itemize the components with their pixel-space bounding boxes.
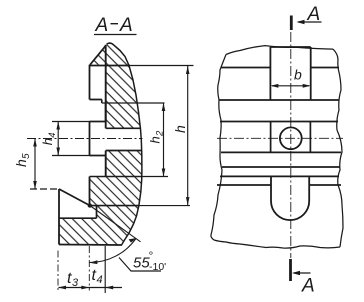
tooth1 column left edge bbox=[105, 45, 107, 122]
rect1 bottom edge bbox=[90, 99, 102, 101]
hatch region upper tooth and column bbox=[90, 43, 140, 128]
top surface extension to h bbox=[130, 65, 194, 67]
svg-text:3: 3 bbox=[72, 277, 79, 289]
svg-text:h: h bbox=[172, 125, 188, 133]
hole circle bbox=[280, 127, 302, 149]
svg-text:A: A bbox=[307, 4, 321, 25]
section mark top bbox=[290, 16, 293, 31]
extension line x=58.5 bbox=[57, 251, 59, 291]
h5 bottom extension bbox=[30, 188, 59, 190]
dimension h bbox=[187, 66, 189, 205]
rect1 left edge bbox=[89, 65, 91, 100]
tooth3 top extension for h2 bbox=[142, 176, 168, 178]
section mark bottom bbox=[289, 259, 292, 281]
svg-text:4: 4 bbox=[97, 274, 103, 286]
horizontal centerline bbox=[217, 137, 343, 139]
tooth3 top line y=176.5 bbox=[90, 176, 142, 178]
vertical centerline bbox=[290, 32, 292, 258]
line y=100 bbox=[219, 99, 339, 101]
extension line x=105 bbox=[104, 246, 106, 293]
vertex dot bbox=[88, 203, 92, 207]
line y=185 right of U slot bbox=[309, 184, 341, 186]
valley floor bbox=[59, 217, 97, 219]
step line y=103 across column bbox=[102, 102, 165, 104]
notch1 right wall bbox=[105, 103, 107, 122]
line y=185 left of U slot bbox=[217, 184, 271, 186]
shaft surface line y=67.5 left of slot bbox=[221, 67, 270, 69]
outer freehand boundary bbox=[211, 46, 343, 248]
line y=176.4 bbox=[220, 175, 339, 177]
rect2 bottom edge bbox=[90, 155, 106, 157]
dimension h4 bbox=[52, 122, 90, 156]
top surface line y=65.5 bbox=[90, 65, 131, 67]
shaft surface line y=67.5 right of slot bbox=[311, 67, 339, 69]
hatch region mid column and tooth3 bbox=[90, 151, 142, 206]
svg-text:2: 2 bbox=[155, 130, 166, 137]
svg-text:h: h bbox=[40, 138, 55, 145]
bottom line of base bbox=[59, 244, 122, 247]
svg-text:A: A bbox=[301, 276, 315, 297]
top slot left edge bbox=[269, 47, 271, 100]
tooth1 left slant bbox=[90, 46, 106, 65]
svg-text:h: h bbox=[148, 136, 163, 143]
circle band left edge bbox=[270, 122, 272, 153]
leader to 55 label bbox=[119, 258, 161, 272]
U slot bbox=[271, 176, 309, 220]
mini step vertical bbox=[101, 100, 103, 104]
angle arc 55 bbox=[90, 238, 137, 262]
svg-text:h: h bbox=[13, 159, 29, 167]
rect2 top edge bbox=[90, 121, 106, 123]
top slot top edge bbox=[270, 46, 310, 48]
freehand right edge curve of section bbox=[107, 43, 142, 245]
white band bottom edge bbox=[106, 150, 142, 152]
svg-text:4: 4 bbox=[47, 132, 58, 137]
line y=121.5 bbox=[220, 121, 338, 123]
55 degree reference line bbox=[90, 206, 141, 242]
dimension b bbox=[272, 85, 309, 87]
flank slant bbox=[59, 189, 90, 206]
circle band right edge bbox=[309, 122, 311, 153]
section title A-A bbox=[94, 15, 137, 36]
line y=167 bbox=[222, 166, 340, 168]
tooth3 left face bbox=[89, 177, 91, 206]
rect2 left edge bbox=[89, 122, 91, 156]
left wedge vertical bbox=[58, 189, 60, 245]
dimension t4 bbox=[90, 287, 123, 289]
svg-text:b: b bbox=[294, 67, 302, 83]
centerline of profile bbox=[27, 138, 143, 140]
svg-text:5: 5 bbox=[21, 153, 32, 159]
hatch region base strip bbox=[59, 206, 139, 246]
extension line x=89 angle reference bbox=[88, 246, 90, 291]
dimension h5 bbox=[34, 139, 36, 190]
extension of y=205.6 to h dimension bbox=[139, 205, 190, 207]
notch2 right wall bbox=[105, 151, 107, 177]
dimension t3 bbox=[59, 287, 90, 289]
white band top edge bbox=[106, 127, 141, 129]
svg-text:A: A bbox=[119, 15, 133, 36]
line y=205.6 across to h bbox=[90, 205, 139, 207]
valley right wall bbox=[96, 206, 98, 219]
svg-text:-10': -10' bbox=[149, 261, 166, 273]
top slot right edge bbox=[310, 47, 312, 100]
svg-text:A: A bbox=[95, 15, 109, 36]
dimension h2 bbox=[163, 103, 165, 177]
column left edge segments at band bbox=[105, 122, 107, 129]
label 55 deg bbox=[133, 249, 166, 274]
line y=152.4 bbox=[221, 151, 341, 153]
